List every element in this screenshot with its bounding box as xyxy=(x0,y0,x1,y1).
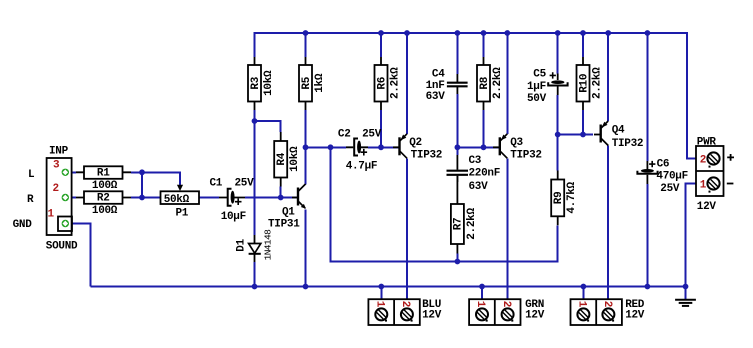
wire: +12V top bus xyxy=(255,32,688,34)
svg-text:12V: 12V xyxy=(525,310,545,322)
wire: R6 top xyxy=(380,33,382,57)
svg-text:63V: 63V xyxy=(426,91,446,103)
svg-text:50V: 50V xyxy=(527,93,547,105)
svg-text:4.7µF: 4.7µF xyxy=(346,160,378,172)
svg-text:R3: R3 xyxy=(250,76,262,89)
wire: RED pin1 drop xyxy=(582,287,584,300)
wire: node row to Q4 base xyxy=(558,134,593,136)
svg-text:50kΩ: 50kΩ xyxy=(164,194,190,206)
svg-text:2.2kΩ: 2.2kΩ xyxy=(592,67,604,99)
wire: R6 bottom xyxy=(380,110,382,148)
screw pin 1 xyxy=(375,308,387,321)
pin 3 xyxy=(62,169,69,176)
wire: ground bus up to PWR pin1 xyxy=(686,184,697,288)
wire: C2 to Q2 base xyxy=(368,146,399,148)
wire: bus left drop to R3 xyxy=(254,32,256,57)
diode D1 xyxy=(235,229,273,262)
transistor Q2 TIP32 xyxy=(393,134,442,162)
resistor R5 xyxy=(299,57,326,110)
wire: C4 bottom to node xyxy=(456,94,458,155)
svg-text:3: 3 xyxy=(53,160,60,172)
svg-text:2.2kΩ: 2.2kΩ xyxy=(390,67,402,99)
svg-text:25V: 25V xyxy=(362,128,382,140)
wire: P1 to C1 xyxy=(199,197,219,199)
svg-text:1N4148: 1N4148 xyxy=(263,229,274,261)
svg-text:2: 2 xyxy=(500,301,512,307)
node: Q1 base / R4 xyxy=(278,195,284,201)
wire: R10 bottom xyxy=(582,110,584,135)
transistor Q1 TIP31 xyxy=(268,184,306,231)
wiper arrowhead xyxy=(177,185,183,191)
svg-text:2: 2 xyxy=(700,154,706,166)
node: input mix ties xyxy=(139,169,145,175)
resistor R4 xyxy=(274,132,301,187)
svg-text:1kΩ: 1kΩ xyxy=(314,73,326,93)
svg-text:1: 1 xyxy=(374,301,386,308)
pin 1 xyxy=(62,220,69,227)
node: Q1 collector row xyxy=(303,144,309,150)
screw pin 1 xyxy=(577,308,589,321)
svg-text:R2: R2 xyxy=(97,193,110,205)
svg-text:Q1: Q1 xyxy=(282,207,295,219)
resistor R2 xyxy=(76,191,131,217)
svg-text:10µF: 10µF xyxy=(221,211,246,223)
wire: R5 top xyxy=(305,33,307,57)
svg-text:R6: R6 xyxy=(376,77,388,90)
svg-text:R8: R8 xyxy=(479,76,491,89)
svg-text:100Ω: 100Ω xyxy=(92,205,118,217)
wire: C5 bottom to node xyxy=(557,95,559,135)
svg-text:470µF: 470µF xyxy=(656,171,688,183)
svg-text:R10: R10 xyxy=(578,74,590,93)
capacitor C1 xyxy=(210,178,255,224)
wire: C6 top xyxy=(646,33,648,161)
connector GRN xyxy=(469,299,545,325)
wire: R5 bottom xyxy=(305,110,307,147)
wire: Q1 emitter down to ground bus xyxy=(305,210,307,287)
pin 1 square xyxy=(58,217,72,232)
wire: ground symbol stub xyxy=(685,287,687,300)
svg-text:GND: GND xyxy=(13,219,33,231)
svg-text:100Ω: 100Ω xyxy=(92,180,118,192)
svg-text:10kΩ: 10kΩ xyxy=(263,70,275,96)
svg-text:2: 2 xyxy=(399,301,411,307)
svg-text:R5: R5 xyxy=(301,76,313,89)
svg-text:C4: C4 xyxy=(432,69,445,81)
wire: branch node to R4 top xyxy=(255,121,281,132)
svg-text:Q3: Q3 xyxy=(510,137,523,149)
wire: tie R1/R2 nodes xyxy=(141,172,143,197)
wire: node row to C2 xyxy=(306,146,347,148)
screw pin 2 xyxy=(602,308,614,321)
resistor R9 xyxy=(551,171,578,226)
connector PWR xyxy=(696,136,734,213)
wire: Q3 emitter to bus xyxy=(506,33,508,134)
svg-text:1nF: 1nF xyxy=(426,80,445,92)
svg-text:220nF: 220nF xyxy=(469,168,501,180)
wire: BLU pin1 drop xyxy=(380,287,382,300)
svg-text:Q4: Q4 xyxy=(612,124,625,136)
wire: GND pin down to ground bus xyxy=(65,224,90,287)
wire: C1 to Q1 base xyxy=(245,197,298,199)
wire: GRN pin1 drop xyxy=(481,287,483,300)
ground xyxy=(675,300,696,306)
svg-text:INP: INP xyxy=(49,145,69,157)
capacitor C3 xyxy=(447,155,501,193)
transistor Q4 TIP32 xyxy=(594,121,643,150)
screw pin 2 xyxy=(502,308,514,321)
wire: R8 bottom xyxy=(483,110,485,148)
svg-text:R4: R4 xyxy=(276,152,288,165)
svg-text:63V: 63V xyxy=(469,181,489,193)
svg-text:2.2kΩ: 2.2kΩ xyxy=(492,67,504,99)
wire: R3 bottom through node to D1 xyxy=(254,110,256,235)
resistor R8 xyxy=(477,57,504,110)
svg-text:P1: P1 xyxy=(176,208,189,220)
svg-text:12V: 12V xyxy=(697,201,717,213)
wire: R1 right to pot corner, wiper drop xyxy=(131,172,180,185)
wire: Q3 collector down to GRN pin2 xyxy=(506,159,508,300)
svg-text:2: 2 xyxy=(53,183,59,195)
pin 2 xyxy=(62,194,69,201)
node: Q3 base row xyxy=(455,144,461,150)
resistor R10 xyxy=(577,57,604,110)
svg-text:L: L xyxy=(28,169,35,181)
svg-text:R1: R1 xyxy=(97,168,110,180)
svg-text:R: R xyxy=(27,194,34,206)
resistor R7 xyxy=(451,176,478,254)
svg-text:SOUND: SOUND xyxy=(46,240,78,252)
wire: Q1 collector up to node xyxy=(305,147,307,184)
screw pin 2 xyxy=(707,152,719,167)
capacitor C5 xyxy=(527,69,568,105)
svg-text:D1: D1 xyxy=(235,238,247,251)
wire: ground bus xyxy=(91,286,686,288)
svg-text:4.7kΩ: 4.7kΩ xyxy=(566,181,578,213)
svg-text:C1: C1 xyxy=(210,178,223,190)
wire: Q2 collector down to BLU pin2 xyxy=(406,159,408,300)
svg-text:1: 1 xyxy=(700,179,707,191)
transistor Q3 TIP32 xyxy=(493,134,542,162)
minus mark xyxy=(727,183,734,185)
svg-text:TIP31: TIP31 xyxy=(268,219,300,231)
wire: C5 top xyxy=(557,33,559,74)
svg-text:R9: R9 xyxy=(553,192,565,205)
resistor R1 xyxy=(76,166,131,192)
connector RED xyxy=(571,299,645,325)
capacitor C2 xyxy=(338,128,382,172)
svg-text:C6: C6 xyxy=(657,158,670,170)
wire: Q4 emitter to bus xyxy=(607,33,609,121)
wire: R8 top xyxy=(483,33,485,57)
wire: R2 right to P1 xyxy=(131,197,161,199)
svg-text:PWR: PWR xyxy=(697,136,717,148)
wire: row R input to R2 xyxy=(65,197,76,199)
wire: R7 bottom to feedback row xyxy=(456,254,458,262)
potentiometer P1 xyxy=(161,185,200,220)
node: R3/R4 branch xyxy=(252,118,258,124)
svg-text:C5: C5 xyxy=(533,69,546,81)
svg-text:1: 1 xyxy=(48,209,55,221)
wire: R10 top xyxy=(582,33,584,57)
capacitor C6 xyxy=(637,158,688,195)
svg-text:TIP32: TIP32 xyxy=(411,150,443,162)
wire: R4 bottom to base row xyxy=(280,187,282,198)
svg-text:C3: C3 xyxy=(469,155,482,167)
wire: Q2 emitter to bus xyxy=(406,33,408,134)
wire: C6 bottom to ground bus xyxy=(646,184,648,287)
plus mark xyxy=(727,154,734,161)
connector BLU xyxy=(368,299,441,325)
svg-text:1: 1 xyxy=(474,301,486,308)
screw pin 2 xyxy=(401,308,413,321)
node: R7 on feedback row xyxy=(455,259,461,265)
svg-text:2: 2 xyxy=(601,301,613,307)
wire: node down to R9 top xyxy=(557,135,559,171)
wire: D1 cathode to ground bus xyxy=(254,262,256,287)
screw pin 1 xyxy=(476,308,488,321)
svg-text:25V: 25V xyxy=(660,183,680,195)
nodes on +12V top bus xyxy=(303,30,309,36)
svg-text:R7: R7 xyxy=(453,218,465,231)
svg-text:TIP32: TIP32 xyxy=(510,150,542,162)
svg-text:TIP32: TIP32 xyxy=(612,138,644,150)
wire: feedback drop and run to R9 xyxy=(331,147,558,261)
svg-text:25V: 25V xyxy=(235,178,255,190)
svg-text:C2: C2 xyxy=(338,128,351,140)
resistor R3 xyxy=(248,57,275,110)
svg-text:2.2kΩ: 2.2kΩ xyxy=(466,208,478,240)
svg-text:12V: 12V xyxy=(625,310,645,322)
wire: row L input to R1 xyxy=(65,171,76,173)
screw pin 1 xyxy=(707,177,719,192)
connector INP xyxy=(46,145,78,252)
capacitor C4 xyxy=(426,69,468,104)
svg-text:1: 1 xyxy=(576,301,588,308)
resistor R6 xyxy=(375,57,402,110)
svg-text:Q2: Q2 xyxy=(409,137,422,149)
wire: Q4 collector down to RED pin2 xyxy=(607,146,609,300)
svg-text:1µF: 1µF xyxy=(527,81,546,93)
wire: node row to Q3 base xyxy=(457,146,499,148)
svg-text:12V: 12V xyxy=(422,310,442,322)
nodes on ground bus xyxy=(252,284,258,290)
wire: bus right drop to PWR pin2 xyxy=(687,32,696,159)
node: Q4 base row xyxy=(555,132,561,138)
svg-text:10kΩ: 10kΩ xyxy=(289,146,301,172)
wire: C4 top xyxy=(456,33,458,74)
